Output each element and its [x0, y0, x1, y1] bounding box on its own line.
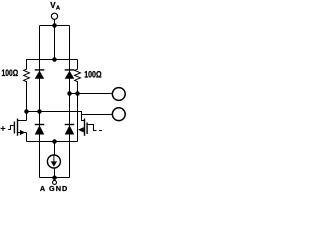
label A GND [40, 184, 69, 193]
node dot rail2 [52, 57, 57, 62]
diode D2 (left lower, cathode up) [35, 125, 45, 135]
wire current source bottom lead [54, 168, 56, 180]
wire line1 to output terminal 1 [70, 93, 112, 95]
node dot node-rail left [24, 109, 29, 114]
terminal VA [51, 13, 57, 19]
wire lower rail [40, 177, 70, 179]
wire right diode column [69, 26, 71, 178]
resistor R-left 100 ohm [24, 60, 30, 112]
diode D3 (right upper, cathode up) [65, 70, 75, 79]
wire left gate lead [8, 126, 14, 130]
node VA label [50, 1, 61, 11]
transistor Q1 source arrow [20, 130, 25, 135]
wire Q1 source lead [18, 132, 27, 134]
node dot lower rail [52, 175, 57, 180]
label - (right input) [99, 130, 102, 132]
wire line2 to output terminal 2 [82, 114, 113, 116]
node dot rail1 [52, 23, 57, 28]
wire Q2 gate lead [87, 125, 96, 131]
terminal output 1 [112, 88, 125, 101]
svg-text:A GND: A GND [40, 184, 69, 193]
diode D1 (left upper, cathode up) [35, 70, 45, 79]
wire current source top lead [54, 142, 56, 156]
wire tail rail [27, 141, 78, 143]
terminal output 2 [112, 108, 125, 121]
transistor Q2 gate bar [86, 123, 88, 135]
terminal A GND [53, 180, 57, 184]
transistor Q2 source arrow [78, 127, 84, 132]
label 100ohm left [2, 68, 19, 78]
label + (left input) [1, 126, 6, 131]
wire Q1 source vertical [26, 133, 28, 142]
transistor Q2 channel bar [84, 119, 86, 136]
node dot node-rail diode [37, 109, 42, 114]
node dot tail rail [52, 139, 57, 144]
wire rail2 [26, 59, 78, 61]
node dot line1-resistor [75, 91, 80, 96]
wire center vertical VA to rail2 [54, 20, 56, 61]
diode D4 (right lower, cathode up) [65, 125, 75, 135]
wire rail1 [40, 25, 70, 27]
label 100ohm right [84, 69, 101, 79]
transistor Q1 channel bar [17, 119, 19, 136]
wire Q1 drain lead [18, 120, 27, 122]
current source I1 [47, 155, 60, 168]
node dot line1-diode [67, 91, 72, 96]
resistor R-right 100 ohm [75, 60, 81, 142]
svg-text:100Ω: 100Ω [84, 69, 101, 79]
wire node rail [27, 112, 85, 121]
svg-text:100Ω: 100Ω [2, 68, 19, 78]
transistor Q1 gate bar [13, 122, 15, 134]
wire left diode column [39, 26, 41, 178]
wire Q1 drain vertical [26, 112, 28, 121]
